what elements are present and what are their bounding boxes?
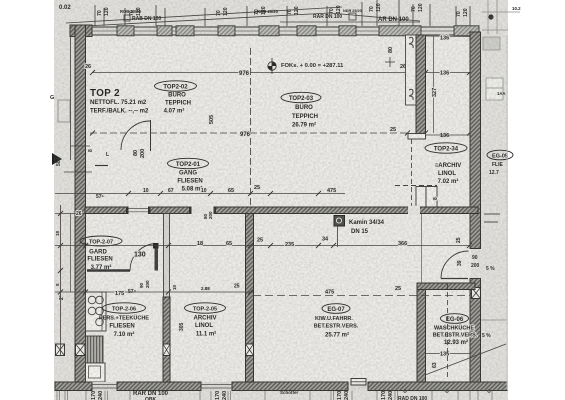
svg-text:G: G: [50, 95, 54, 101]
svg-text:10.2: 10.2: [512, 6, 521, 11]
